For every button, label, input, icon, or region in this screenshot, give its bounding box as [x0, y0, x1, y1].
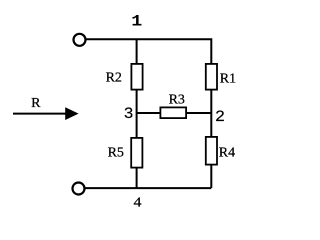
svg-text:R1: R1: [220, 72, 236, 87]
svg-text:R3: R3: [169, 93, 185, 108]
svg-text:4: 4: [134, 195, 142, 210]
svg-text:R5: R5: [108, 145, 124, 160]
svg-text:R2: R2: [106, 71, 122, 86]
svg-text:3: 3: [124, 105, 134, 123]
svg-text:1: 1: [131, 13, 142, 31]
svg-text:R: R: [31, 96, 41, 111]
svg-text:2: 2: [215, 108, 225, 126]
svg-text:R4: R4: [219, 146, 235, 161]
